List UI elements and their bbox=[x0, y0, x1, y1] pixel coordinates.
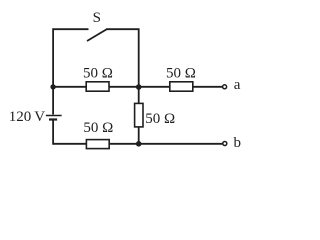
wire top-right segment and right leg down to node bbox=[106, 29, 139, 87]
wire bottom row bbox=[53, 143, 223, 145]
wire battery negative lead down to bottom rail bbox=[52, 120, 54, 145]
junction node top of vertical resistor bbox=[136, 84, 142, 90]
junction node left-middle bbox=[50, 84, 55, 89]
resistor R3 50 ohm (vertical middle) bbox=[135, 103, 143, 127]
terminal b open circle bbox=[223, 142, 227, 146]
wire vertical resistor branch bbox=[138, 87, 140, 144]
svg-text:120: 120 bbox=[9, 109, 32, 125]
wire left rail bbox=[52, 28, 54, 114]
resistor R4 50 ohm (bottom) bbox=[86, 140, 109, 149]
wire top-left segment bbox=[53, 28, 88, 30]
terminal a open circle bbox=[223, 85, 227, 89]
resistor R2 50 ohm (top right) bbox=[170, 82, 193, 91]
svg-text:50 Ω: 50 Ω bbox=[83, 120, 113, 136]
switch S blade bbox=[87, 29, 107, 41]
svg-text:V: V bbox=[34, 109, 45, 125]
svg-text:S: S bbox=[93, 10, 101, 26]
svg-text:b: b bbox=[234, 135, 242, 151]
svg-text:50 Ω: 50 Ω bbox=[83, 65, 113, 81]
battery 120 V long plate bbox=[46, 115, 62, 117]
svg-text:50 Ω: 50 Ω bbox=[166, 65, 196, 81]
svg-text:50 Ω: 50 Ω bbox=[145, 111, 175, 127]
junction node bottom of vertical resistor bbox=[136, 141, 142, 147]
wire middle row bbox=[53, 86, 222, 88]
resistor R1 50 ohm (top middle) bbox=[86, 82, 109, 91]
svg-text:a: a bbox=[234, 77, 241, 93]
battery 120 V short plate bbox=[49, 118, 57, 120]
